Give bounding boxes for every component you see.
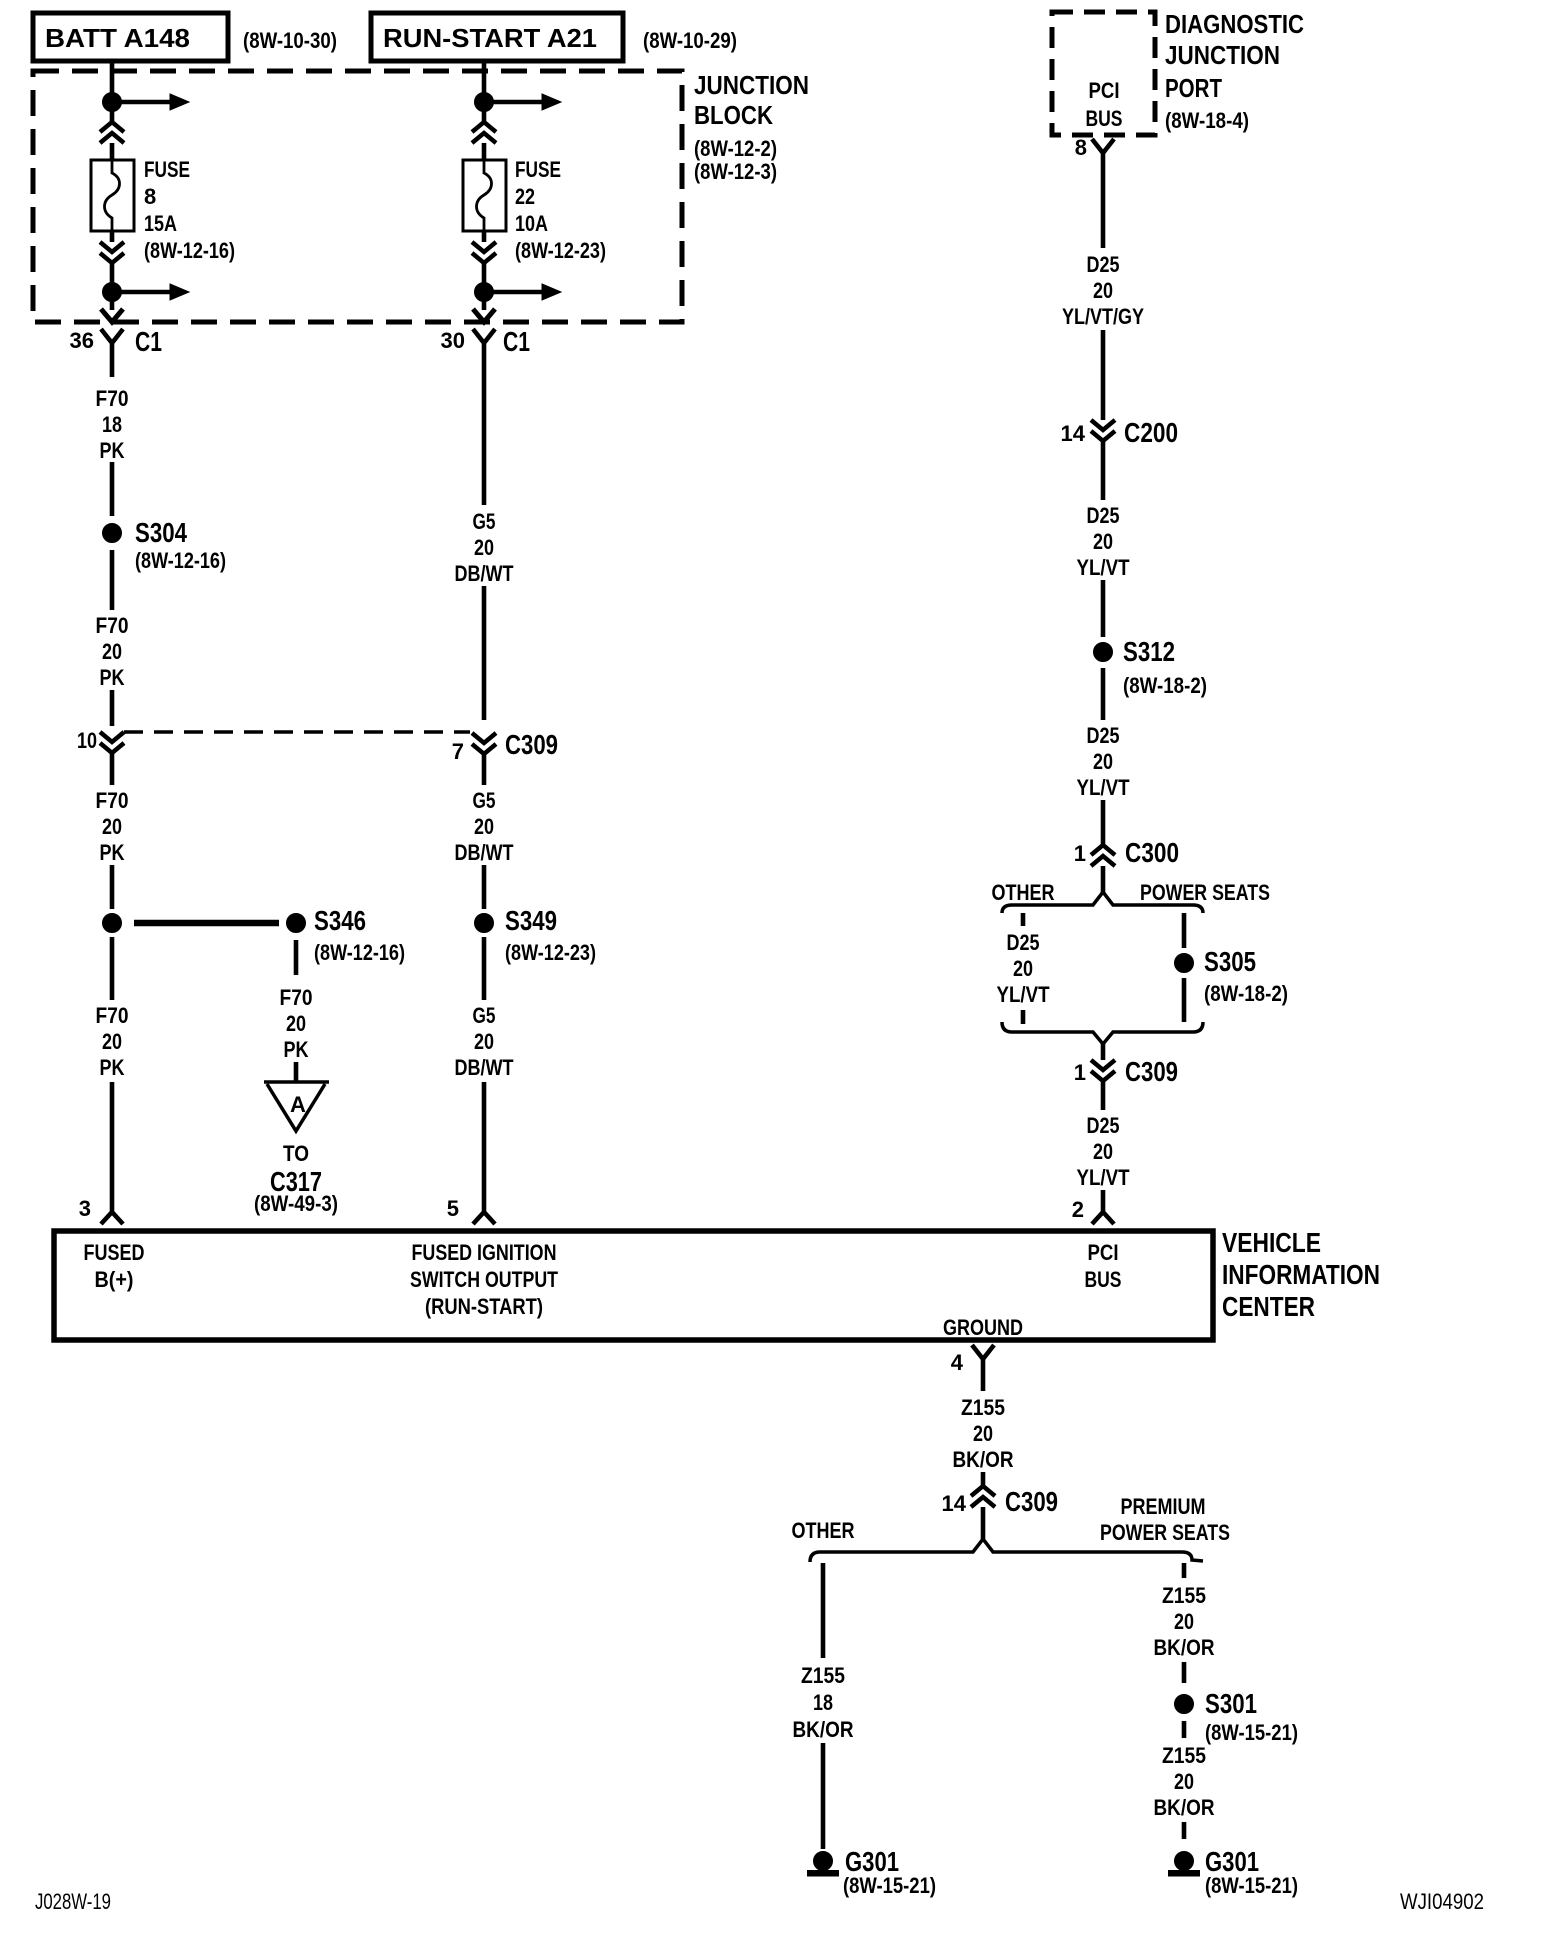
svg-text:3: 3: [79, 1196, 91, 1221]
svg-text:DB/WT: DB/WT: [455, 561, 514, 586]
harness merge brace (C309): [1002, 1022, 1203, 1044]
harness split brace (C300): [1002, 892, 1203, 913]
wire label G5 20 DB/WT: [455, 1003, 514, 1080]
fuse 22: [463, 160, 506, 231]
connector C309 pin 7 chevrons: [472, 733, 496, 754]
svg-text:(8W-18-2): (8W-18-2): [1204, 981, 1288, 1006]
svg-text:DB/WT: DB/WT: [455, 1055, 514, 1080]
svg-text:YL/VT: YL/VT: [997, 982, 1050, 1007]
svg-text:WJI04902: WJI04902: [1400, 1889, 1484, 1914]
wire to S349: [482, 865, 487, 909]
svg-text:15A: 15A: [144, 211, 177, 236]
node splice (fuse 22 output, arrow): [475, 283, 562, 302]
wire to C1 pin 36: [110, 263, 115, 310]
svg-text:(8W-18-4): (8W-18-4): [1165, 108, 1249, 133]
connector chevrons (fuse 22 output): [472, 242, 496, 263]
svg-text:(8W-15-21): (8W-15-21): [1205, 1720, 1298, 1745]
svg-text:20: 20: [1093, 278, 1113, 303]
svg-text:OTHER: OTHER: [792, 1518, 855, 1543]
svg-text:INFORMATION: INFORMATION: [1222, 1259, 1380, 1290]
svg-text:20: 20: [102, 639, 122, 664]
splice S346: [287, 914, 306, 933]
svg-text:BLOCK: BLOCK: [694, 100, 773, 130]
wire to C309 pin 7: [482, 586, 487, 720]
connector C309 pin 1 chevrons: [1091, 1060, 1115, 1081]
wire to splice node: [110, 865, 115, 909]
splice S305: [1175, 954, 1194, 973]
svg-text:7: 7: [452, 739, 464, 764]
connector C309 pin 14 chevrons: [971, 1486, 995, 1507]
svg-text:20: 20: [1093, 749, 1113, 774]
svg-text:D25: D25: [1087, 503, 1120, 528]
wire label D25 20 YL/VT/GY: [1062, 252, 1144, 329]
node splice (run-start feed, arrow): [475, 93, 562, 112]
feed box BATT A148: [33, 13, 228, 61]
svg-text:30: 30: [441, 328, 465, 353]
svg-text:1: 1: [1074, 841, 1086, 866]
svg-text:10: 10: [77, 728, 97, 753]
svg-text:DIAGNOSTIC: DIAGNOSTIC: [1165, 9, 1304, 39]
svg-text:BATT A148: BATT A148: [45, 23, 190, 53]
dashed wire premium power seats branch: [1182, 1563, 1187, 1683]
svg-text:(8W-12-16): (8W-12-16): [314, 940, 405, 965]
svg-text:VEHICLE: VEHICLE: [1222, 1227, 1321, 1258]
svg-text:FUSED: FUSED: [84, 1240, 145, 1265]
svg-text:(8W-12-23): (8W-12-23): [515, 238, 606, 263]
wire below C300: [1101, 866, 1106, 893]
svg-text:PORT: PORT: [1165, 73, 1222, 103]
fuse 8: [91, 160, 134, 231]
svg-text:PK: PK: [100, 1055, 125, 1080]
svg-text:S304: S304: [135, 517, 187, 548]
wire label F70 20 PK: [96, 613, 129, 690]
connector chevrons (batt feed): [100, 122, 124, 143]
svg-text:20: 20: [1013, 956, 1033, 981]
svg-text:FUSE: FUSE: [515, 157, 561, 182]
svg-text:14: 14: [942, 1491, 967, 1516]
svg-text:20: 20: [973, 1421, 993, 1446]
svg-text:20: 20: [1093, 1139, 1113, 1164]
svg-text:S301: S301: [1205, 1688, 1257, 1719]
svg-text:BK/OR: BK/OR: [953, 1447, 1014, 1472]
svg-text:Z155: Z155: [1162, 1743, 1206, 1768]
wire below C200: [1101, 441, 1106, 500]
wire G5 20 DB/WT lower: [482, 937, 487, 1000]
wire label D25 20 YL/VT lower: [1077, 1113, 1130, 1190]
svg-text:PK: PK: [100, 665, 125, 690]
svg-text:TO: TO: [283, 1141, 309, 1166]
svg-text:20: 20: [286, 1011, 306, 1036]
wire label F70 18 PK: [96, 386, 129, 463]
svg-text:J028W-19: J028W-19: [35, 1889, 111, 1914]
pin function label FUSED B(+): [84, 1240, 145, 1292]
svg-text:20: 20: [474, 535, 494, 560]
svg-text:PK: PK: [284, 1037, 309, 1062]
wire label Z155 18 BK/OR: [793, 1663, 854, 1742]
wire to C1 pin 30: [482, 263, 487, 310]
svg-text:(8W-49-3): (8W-49-3): [254, 1191, 338, 1216]
arrowhead at junction block edge: [101, 309, 123, 322]
svg-text:S312: S312: [1123, 636, 1175, 667]
svg-text:F70: F70: [96, 613, 129, 638]
svg-text:20: 20: [1174, 1769, 1194, 1794]
wire D25 upper: [1101, 180, 1106, 248]
connector C1 pin 30: [473, 329, 495, 400]
pin function label PCI BUS: [1085, 1240, 1122, 1292]
svg-text:(RUN-START): (RUN-START): [425, 1294, 543, 1319]
svg-text:S346: S346: [314, 905, 366, 936]
svg-text:(8W-12-16): (8W-12-16): [144, 238, 235, 263]
pin 2 into vehicle information center: [1092, 1190, 1114, 1224]
splice S304: [103, 524, 122, 543]
svg-text:C309: C309: [1005, 1486, 1058, 1517]
wire label F70 20 PK: [96, 788, 129, 865]
wire to C309 (pci bus): [1101, 1044, 1106, 1060]
svg-text:(8W-12-2): (8W-12-2): [694, 136, 777, 161]
svg-text:POWER SEATS: POWER SEATS: [1100, 1520, 1230, 1545]
wire G5 20 DB/WT upper: [482, 400, 487, 505]
svg-text:14: 14: [1061, 421, 1086, 446]
svg-text:DB/WT: DB/WT: [455, 840, 514, 865]
svg-text:POWER SEATS: POWER SEATS: [1140, 880, 1270, 905]
svg-text:F70: F70: [96, 1003, 129, 1028]
junction block label: [694, 70, 809, 184]
svg-text:20: 20: [102, 814, 122, 839]
wire fuse 22 output: [482, 231, 487, 242]
wire power seats branch upper: [1182, 913, 1187, 948]
svg-text:JUNCTION: JUNCTION: [1165, 40, 1280, 70]
label PREMIUM POWER SEATS: [1100, 1494, 1230, 1545]
svg-text:BUS: BUS: [1085, 1267, 1122, 1292]
junction block dashed border: [33, 71, 682, 322]
wire below C309: [1101, 1081, 1106, 1110]
svg-text:YL/VT: YL/VT: [1077, 1165, 1130, 1190]
svg-text:18: 18: [813, 1690, 833, 1715]
svg-text:BK/OR: BK/OR: [793, 1717, 854, 1742]
feed box RUN-START A21: [371, 13, 623, 61]
svg-text:D25: D25: [1087, 1113, 1120, 1138]
vehicle information center box: [54, 1231, 1213, 1340]
svg-text:YL/VT: YL/VT: [1077, 555, 1130, 580]
svg-text:C1: C1: [503, 326, 530, 357]
svg-text:F70: F70: [96, 386, 129, 411]
connector C309 pin 10 chevrons: [100, 732, 124, 753]
svg-text:PK: PK: [100, 438, 125, 463]
svg-text:C200: C200: [1124, 417, 1178, 448]
svg-text:F70: F70: [280, 985, 313, 1010]
svg-text:(8W-10-30): (8W-10-30): [243, 28, 337, 53]
svg-text:18: 18: [102, 412, 122, 437]
svg-text:20: 20: [1174, 1609, 1194, 1634]
svg-text:CENTER: CENTER: [1222, 1291, 1315, 1322]
node splice (fuse 8 output, arrow to other circuits): [103, 283, 190, 302]
svg-text:20: 20: [474, 1029, 494, 1054]
wire power seats branch lower: [1182, 978, 1187, 1022]
svg-text:20: 20: [474, 814, 494, 839]
svg-text:C300: C300: [1125, 837, 1179, 868]
svg-text:A: A: [290, 1092, 306, 1117]
svg-text:YL/VT/GY: YL/VT/GY: [1062, 304, 1144, 329]
wire below S304: [110, 550, 115, 610]
dashed wire below S301: [1182, 1721, 1187, 1738]
svg-text:D25: D25: [1007, 930, 1040, 955]
svg-text:(8W-15-21): (8W-15-21): [843, 1873, 936, 1898]
connector chevrons (fuse 8 output): [100, 242, 124, 263]
wire from RUN-START A21 feed: [482, 61, 487, 122]
dashed wire to G301: [1182, 1822, 1187, 1839]
svg-text:Z155: Z155: [1162, 1583, 1206, 1608]
svg-text:(8W-18-2): (8W-18-2): [1123, 673, 1207, 698]
svg-text:2: 2: [1072, 1197, 1084, 1222]
splice S312: [1094, 643, 1113, 662]
svg-text:PCI: PCI: [1088, 1240, 1119, 1265]
wire label D25 20 YL/VT: [1077, 723, 1130, 800]
off-page connector triangle A: [264, 1082, 329, 1131]
diagnostic junction port label: [1165, 9, 1304, 133]
connector C1 pin 36: [101, 329, 123, 377]
svg-text:8: 8: [144, 184, 156, 209]
fuse 22 labels: [515, 157, 606, 263]
wire label Z155 20 BK/OR: [1154, 1583, 1215, 1660]
wire label G5 20 DB/WT: [455, 788, 514, 865]
svg-text:OTHER: OTHER: [992, 880, 1055, 905]
wire Z155 18 BK/OR upper: [821, 1563, 826, 1658]
svg-text:RUN-START A21: RUN-START A21: [383, 23, 597, 53]
wire label F70 20 PK: [96, 1003, 129, 1080]
wire chevron to fuse 8: [110, 143, 115, 160]
arrowhead at junction block edge (run-start): [473, 309, 495, 322]
svg-text:B(+): B(+): [95, 1267, 134, 1292]
svg-text:C309: C309: [505, 729, 558, 760]
wire label D25 20 YL/VT (other branch): [997, 930, 1050, 1007]
pin function label FUSED IGNITION SWITCH OUTPUT (RUN-START): [410, 1240, 558, 1319]
wire label F70 20 PK: [280, 985, 313, 1062]
svg-text:F70: F70: [96, 788, 129, 813]
wire below S346: [294, 940, 299, 975]
svg-text:D25: D25: [1087, 723, 1120, 748]
svg-text:BUS: BUS: [1086, 106, 1123, 131]
wire to C300: [1101, 800, 1106, 845]
svg-text:PCI: PCI: [1089, 78, 1120, 103]
wire from BATT A148 feed: [110, 61, 115, 122]
connector C300 chevrons: [1091, 845, 1115, 866]
wire label Z155 20 BK/OR lower: [1154, 1743, 1215, 1820]
svg-text:FUSED IGNITION: FUSED IGNITION: [412, 1240, 557, 1265]
wire to C309 pin 10: [110, 690, 115, 726]
svg-text:Z155: Z155: [961, 1395, 1005, 1420]
bus link wire to S346: [134, 920, 279, 927]
splice S349: [475, 914, 494, 933]
svg-text:1: 1: [1074, 1060, 1086, 1085]
svg-text:YL/VT: YL/VT: [1077, 775, 1130, 800]
pin 5 into vehicle information center: [473, 1082, 495, 1224]
wire chevron to fuse 22: [482, 143, 487, 160]
svg-text:20: 20: [102, 1029, 122, 1054]
splice S301: [1175, 1695, 1194, 1714]
wire label G5 20 DB/WT: [455, 509, 514, 586]
svg-text:4: 4: [951, 1350, 964, 1375]
svg-text:8: 8: [1075, 135, 1087, 160]
wire to C309 pin 14: [981, 1472, 986, 1486]
wire to S312: [1101, 580, 1106, 637]
wire below C309 to split: [981, 1507, 986, 1540]
component name VEHICLE INFORMATION CENTER: [1222, 1227, 1380, 1322]
pin 3 into vehicle information center: [101, 1082, 123, 1224]
svg-text:22: 22: [515, 184, 535, 209]
svg-text:S305: S305: [1204, 946, 1256, 977]
svg-text:Z155: Z155: [801, 1663, 845, 1688]
wire label D25 20 YL/VT: [1077, 503, 1130, 580]
wire to C200: [1101, 330, 1106, 420]
svg-text:(8W-12-16): (8W-12-16): [135, 548, 226, 573]
svg-text:JUNCTION: JUNCTION: [694, 70, 809, 100]
svg-text:36: 36: [70, 328, 94, 353]
svg-text:(8W-15-21): (8W-15-21): [1205, 1873, 1298, 1898]
node splice junction to S346: [103, 914, 122, 933]
svg-text:GROUND: GROUND: [943, 1315, 1023, 1340]
connector pin 8 of diagnostic junction port: [1092, 139, 1114, 180]
svg-text:PK: PK: [100, 840, 125, 865]
connector chevrons (run-start feed): [472, 122, 496, 143]
svg-text:C1: C1: [135, 326, 162, 357]
wire to off-page triangle: [294, 1062, 299, 1082]
fuse 8 labels: [144, 157, 235, 263]
wire F70 20 PK lower: [110, 937, 115, 1000]
svg-text:BK/OR: BK/OR: [1154, 1635, 1215, 1660]
wire below C309 pin 7: [482, 754, 487, 785]
diagnostic junction port dashed box: [1052, 12, 1155, 135]
svg-text:FUSE: FUSE: [144, 157, 190, 182]
node splice (batt feed, arrow to other circuits): [103, 93, 190, 112]
svg-text:20: 20: [1093, 529, 1113, 554]
svg-text:5: 5: [447, 1196, 459, 1221]
svg-text:(8W-10-29): (8W-10-29): [643, 28, 737, 53]
harness split brace (ground): [810, 1539, 1203, 1562]
dashed link line C309: [124, 730, 470, 734]
svg-text:(8W-12-23): (8W-12-23): [505, 940, 596, 965]
svg-text:BK/OR: BK/OR: [1154, 1795, 1215, 1820]
wire below S312: [1101, 668, 1106, 720]
svg-text:G5: G5: [473, 509, 496, 534]
svg-text:10A: 10A: [515, 211, 548, 236]
svg-text:PREMIUM: PREMIUM: [1121, 1494, 1206, 1519]
wire below C309 pin 10: [110, 753, 115, 785]
wire Z155 18 BK/OR lower: [821, 1743, 826, 1849]
svg-text:S349: S349: [505, 905, 557, 936]
connector C200 chevrons: [1091, 420, 1115, 441]
wire F70 18 PK upper: [110, 462, 115, 516]
connector pin 4 (ground output): [972, 1345, 994, 1391]
svg-text:G5: G5: [473, 788, 496, 813]
ground G301 (premium power seats): [1169, 1852, 1200, 1877]
svg-text:D25: D25: [1087, 252, 1120, 277]
ground G301 (other branch): [808, 1852, 839, 1877]
svg-text:SWITCH OUTPUT: SWITCH OUTPUT: [410, 1267, 558, 1292]
wire fuse 8 output: [110, 231, 115, 242]
wire label Z155 20 BK/OR: [953, 1395, 1014, 1472]
dashed wire (other branch): [1021, 913, 1026, 1024]
svg-text:(8W-12-3): (8W-12-3): [694, 159, 777, 184]
svg-text:C309: C309: [1125, 1056, 1178, 1087]
svg-text:G5: G5: [473, 1003, 496, 1028]
